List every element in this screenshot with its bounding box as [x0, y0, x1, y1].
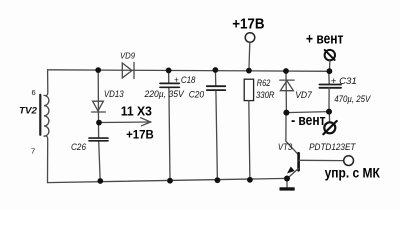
transistor VT3 base bar — [297, 153, 300, 170]
node VD7 bottom — [283, 110, 289, 116]
ground stub — [286, 179, 288, 188]
capacitor C20 — [207, 85, 226, 87]
svg-text:+17В: +17В — [126, 127, 154, 141]
transistor VT3 emitter lead — [287, 168, 298, 178]
svg-text:7: 7 — [31, 147, 35, 156]
capacitor C26 — [89, 137, 108, 139]
svg-text:R62: R62 — [257, 78, 271, 88]
wire R62 to bottom rail — [249, 101, 250, 180]
node +vent — [327, 68, 333, 74]
svg-text:VT3: VT3 — [278, 142, 292, 152]
wire C18 branch — [168, 70, 170, 83]
svg-text:VD9: VD9 — [120, 52, 136, 61]
diode VD13 — [93, 101, 104, 111]
node R62 bottom — [247, 177, 253, 183]
transistor VT3 collector lead — [286, 141, 299, 155]
node C31 bottom — [326, 109, 332, 115]
terminal upr circle — [344, 156, 354, 166]
wire collector drop — [285, 113, 287, 142]
wire +vent to rail — [328, 61, 331, 72]
ground bar — [280, 187, 295, 190]
node C18 top — [166, 68, 172, 74]
wire base lead — [299, 159, 344, 161]
svg-text:+ вент: + вент — [306, 30, 343, 47]
wire VD13 branch vertical — [97, 70, 99, 138]
node C20 bottom — [215, 177, 221, 183]
terminal -vent crossed circle — [324, 122, 335, 133]
svg-text:+ C18: + C18 — [174, 75, 196, 85]
svg-text:+17В: +17В — [232, 16, 264, 32]
svg-text:PDTD123ET: PDTD123ET — [309, 142, 357, 152]
svg-text:VD13: VD13 — [104, 89, 124, 99]
wire -vent terminal lead — [328, 112, 330, 122]
wire left vertical top lead — [46, 70, 48, 96]
diode VD9 — [122, 63, 132, 78]
svg-text:11 X3: 11 X3 — [121, 103, 152, 118]
node C20 top — [213, 67, 219, 73]
transformer TV2 core bar — [39, 95, 41, 135]
node VD7 top — [283, 68, 289, 74]
diode VD7 — [280, 81, 293, 91]
node +17V — [246, 68, 252, 74]
node emitter/ground — [284, 176, 290, 182]
wire C20 branch — [214, 70, 216, 86]
wire C31 bottom lead — [328, 88, 330, 112]
svg-text:- вент: - вент — [291, 112, 325, 129]
node X3 — [96, 120, 102, 126]
svg-text:+ C31: + C31 — [331, 76, 357, 86]
wire top rail — [48, 70, 330, 72]
node top VD13 — [95, 67, 101, 73]
transformer TV2 winding — [44, 95, 49, 136]
wire VD7 branch — [285, 71, 287, 113]
capacitor C31 — [319, 84, 341, 86]
svg-text:220µ, 35V: 220µ, 35V — [144, 89, 185, 99]
wire C31 top lead — [328, 71, 330, 84]
wire -vent net horizontal — [286, 112, 329, 113]
svg-text:330R: 330R — [256, 90, 275, 100]
wire bottom rail — [48, 178, 288, 182]
node C26 bottom — [97, 178, 103, 184]
svg-text:470µ, 25V: 470µ, 25V — [334, 94, 371, 104]
svg-text:VD7: VD7 — [295, 90, 313, 100]
node C18 bottom — [167, 178, 173, 184]
svg-text:6: 6 — [32, 88, 36, 97]
transistor VT3 emitter arrow — [288, 167, 294, 173]
wire terminal to rail — [248, 42, 251, 70]
capacitor C18 — [160, 82, 179, 84]
terminal +17V circle — [245, 33, 255, 43]
svg-text:C20: C20 — [189, 89, 204, 99]
wire C26 to bottom rail — [99, 141, 101, 181]
wire left vertical bottom lead — [46, 136, 48, 183]
svg-text:упр. с МК: упр. с МК — [325, 164, 381, 180]
svg-text:C26: C26 — [71, 142, 86, 152]
svg-text:TV2: TV2 — [19, 106, 38, 117]
resistor R62 — [244, 79, 253, 100]
terminal +vent crossed circle — [325, 50, 335, 60]
wire X3 arrow — [102, 121, 151, 124]
